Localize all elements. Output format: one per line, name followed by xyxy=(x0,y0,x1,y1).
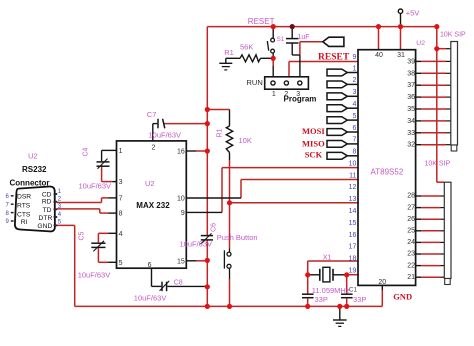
svg-text:DTR: DTR xyxy=(39,215,53,222)
svg-text:5: 5 xyxy=(119,260,123,267)
svg-text:10K SIP: 10K SIP xyxy=(425,161,451,168)
svg-text:10uF/63V: 10uF/63V xyxy=(134,293,167,302)
svg-text:15: 15 xyxy=(349,220,357,227)
svg-text:C1: C1 xyxy=(349,286,358,293)
svg-text:SCK: SCK xyxy=(305,150,323,160)
svg-text:CD: CD xyxy=(42,191,52,198)
svg-text:26: 26 xyxy=(407,216,415,223)
svg-text:16: 16 xyxy=(349,232,357,239)
svg-text:RTS: RTS xyxy=(17,203,31,210)
svg-text:U2: U2 xyxy=(28,151,38,160)
svg-text:MOSI: MOSI xyxy=(302,126,325,136)
svg-text:2: 2 xyxy=(284,91,288,98)
svg-text:3: 3 xyxy=(352,89,356,96)
svg-text:RESET: RESET xyxy=(318,53,350,63)
svg-text:12: 12 xyxy=(349,184,357,191)
svg-text:10: 10 xyxy=(349,160,357,167)
svg-text:11.059MHz: 11.059MHz xyxy=(312,286,350,295)
svg-text:RD: RD xyxy=(42,199,52,206)
svg-text:GND: GND xyxy=(37,223,52,230)
svg-text:C4: C4 xyxy=(83,147,90,156)
svg-text:27: 27 xyxy=(407,204,415,211)
svg-text:37: 37 xyxy=(407,82,415,89)
svg-text:6: 6 xyxy=(148,262,152,269)
svg-text:19: 19 xyxy=(349,268,357,275)
svg-text:5: 5 xyxy=(352,113,356,120)
svg-text:33: 33 xyxy=(407,130,415,137)
svg-text:39: 39 xyxy=(407,58,415,65)
svg-text:7: 7 xyxy=(119,196,123,203)
svg-text:18: 18 xyxy=(349,256,357,263)
svg-text:10uF/63V: 10uF/63V xyxy=(79,181,112,190)
svg-text:35: 35 xyxy=(407,106,415,113)
svg-text:10uF/63V: 10uF/63V xyxy=(149,130,182,139)
svg-text:4: 4 xyxy=(352,101,356,108)
svg-text:C8: C8 xyxy=(174,280,183,287)
svg-text:GND: GND xyxy=(393,292,412,302)
svg-text:AT89S52: AT89S52 xyxy=(371,168,404,177)
svg-text:32: 32 xyxy=(407,142,415,149)
svg-text:RESET: RESET xyxy=(248,17,275,26)
svg-text:1: 1 xyxy=(352,65,356,72)
svg-text:U2: U2 xyxy=(416,40,425,47)
svg-text:X1: X1 xyxy=(323,254,332,261)
svg-text:C6: C6 xyxy=(211,223,218,232)
svg-text:13: 13 xyxy=(349,196,357,203)
svg-text:15: 15 xyxy=(177,258,185,265)
svg-text:56K: 56K xyxy=(240,42,253,51)
svg-text:38: 38 xyxy=(407,70,415,77)
svg-text:7: 7 xyxy=(352,137,356,144)
svg-text:9: 9 xyxy=(352,54,356,61)
svg-text:RS232: RS232 xyxy=(22,165,47,174)
svg-text:22: 22 xyxy=(407,262,415,269)
svg-text:1: 1 xyxy=(272,91,276,98)
svg-text:14: 14 xyxy=(349,208,357,215)
svg-text:10uF/63V: 10uF/63V xyxy=(180,239,213,248)
svg-text:10: 10 xyxy=(177,196,185,203)
svg-text:4: 4 xyxy=(119,231,123,238)
svg-text:33P: 33P xyxy=(353,295,366,304)
svg-text:2: 2 xyxy=(352,77,356,84)
svg-text:17: 17 xyxy=(349,244,357,251)
svg-text:1uF: 1uF xyxy=(298,34,310,41)
svg-text:U2: U2 xyxy=(145,179,155,188)
svg-text:RUN: RUN xyxy=(247,78,263,87)
svg-text:10K SIP: 10K SIP xyxy=(440,32,466,39)
svg-text:6: 6 xyxy=(352,125,356,132)
svg-text:10K: 10K xyxy=(239,136,252,145)
svg-text:3: 3 xyxy=(296,91,300,98)
svg-text:MAX 232: MAX 232 xyxy=(136,201,170,210)
svg-text:33P: 33P xyxy=(315,295,328,304)
svg-text:11: 11 xyxy=(349,172,356,179)
svg-text:RI: RI xyxy=(21,219,28,226)
svg-text:TD: TD xyxy=(43,207,52,214)
svg-text:31: 31 xyxy=(397,52,405,59)
svg-text:21: 21 xyxy=(407,274,415,281)
svg-text:8: 8 xyxy=(119,211,123,218)
svg-text:10uF/63V: 10uF/63V xyxy=(78,270,111,279)
svg-text:36: 36 xyxy=(407,94,415,101)
svg-text:R1: R1 xyxy=(224,48,234,57)
svg-text:MISO: MISO xyxy=(302,139,325,149)
svg-text:S1: S1 xyxy=(277,36,285,43)
svg-text:20: 20 xyxy=(378,279,386,286)
svg-text:28: 28 xyxy=(407,193,415,200)
svg-text:DSR: DSR xyxy=(17,193,31,200)
svg-text:3: 3 xyxy=(119,179,123,186)
svg-text:34: 34 xyxy=(407,118,415,125)
svg-text:C7: C7 xyxy=(147,110,157,119)
svg-text:8: 8 xyxy=(352,149,356,156)
svg-text:23: 23 xyxy=(407,251,415,258)
svg-text:9: 9 xyxy=(181,210,185,217)
svg-text:24: 24 xyxy=(407,239,415,246)
svg-text:Push Button: Push Button xyxy=(217,233,258,242)
svg-text:25: 25 xyxy=(407,228,415,235)
svg-text:+5V: +5V xyxy=(406,9,420,18)
svg-text:1: 1 xyxy=(119,148,123,155)
svg-text:40: 40 xyxy=(375,52,383,59)
svg-text:Connector: Connector xyxy=(10,178,50,187)
svg-text:R1: R1 xyxy=(217,128,224,137)
svg-text:CTS: CTS xyxy=(17,212,31,219)
svg-text:2: 2 xyxy=(151,144,155,151)
svg-text:16: 16 xyxy=(177,148,185,155)
svg-text:C5: C5 xyxy=(79,231,86,240)
